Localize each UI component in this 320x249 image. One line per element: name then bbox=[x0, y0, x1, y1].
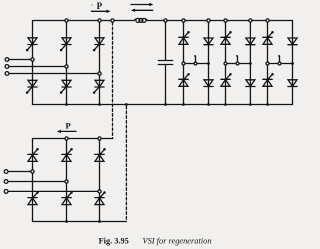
thyristor T2 bbox=[93, 80, 104, 94]
terminal: phase B input bbox=[5, 65, 9, 69]
thyristor Q4 bbox=[179, 73, 190, 86]
capacitor C (DC link) bbox=[158, 21, 172, 105]
thyristor Q3 bbox=[221, 31, 232, 44]
wire: regen phase C lead bbox=[8, 190, 100, 192]
wire: inverter leg1 mid rail bbox=[184, 63, 209, 65]
thyristor T2R bbox=[95, 191, 106, 204]
node: phase B junction bbox=[65, 65, 68, 68]
diode D1 bbox=[204, 38, 213, 45]
wire: regen leg 3 vertical bbox=[99, 139, 101, 222]
junction dot: regen bottom rail leg2 bbox=[65, 220, 68, 223]
node: leg3 top rail diode corner bbox=[0, 0, 1, 1]
caption: figure number bbox=[99, 236, 129, 245]
wire: rectifier leg 3 vertical bbox=[99, 21, 101, 105]
node: leg1 top rail diode bbox=[207, 19, 210, 22]
terminal: regen phase A bbox=[4, 170, 8, 174]
node: regen phase C junction bbox=[98, 190, 101, 193]
wire: regen bridge top rail bbox=[33, 138, 113, 140]
node: phase C junction bbox=[98, 72, 101, 75]
node: leg2 top rail diode bbox=[249, 19, 252, 22]
diode D4 bbox=[204, 80, 213, 87]
thyristor Q5 bbox=[263, 31, 274, 44]
svg-text:Fig. 3.95: Fig. 3.95 bbox=[99, 236, 129, 245]
terminal: regen phase C bbox=[4, 190, 8, 194]
wire: phase A lead bbox=[9, 59, 33, 61]
terminal: output phase U tap bbox=[194, 55, 197, 65]
wire: rectifier leg 2 vertical bbox=[66, 21, 68, 105]
wire: inverter leg2 thyristor column bbox=[225, 21, 227, 105]
caption: figure title bbox=[143, 236, 212, 245]
wire: regen leg 1 vertical bbox=[32, 139, 34, 222]
svg-text:P: P bbox=[66, 120, 71, 130]
thyristor T6R bbox=[62, 191, 73, 204]
wire: regen phase B lead bbox=[8, 181, 67, 183]
junction dot: leg2 diode mid bbox=[249, 62, 252, 65]
junction dot: capacitor bottom rail bbox=[164, 103, 167, 106]
node: top rail leg3 bbox=[98, 19, 101, 22]
wire: inverter leg1 diode column bbox=[208, 21, 210, 105]
node: top rail dashed tap bbox=[111, 19, 114, 22]
diode D2 bbox=[288, 80, 297, 87]
junction dot: bottom rail leg2 bbox=[65, 103, 68, 106]
wire: inverter leg2 mid rail bbox=[226, 63, 251, 65]
wire: inverter leg1 thyristor column bbox=[183, 21, 185, 105]
label P (regeneration power flow) bbox=[66, 120, 71, 130]
node: leg3 thyristor mid bbox=[266, 62, 269, 65]
junction dot: leg1 diode mid bbox=[207, 62, 210, 65]
wire: inverter leg2 diode column bbox=[249, 21, 251, 105]
junction dot: regen bottom rail leg3 bbox=[98, 220, 101, 223]
label P (top power flow) bbox=[91, 1, 102, 11]
terminal: output phase V tap bbox=[236, 55, 239, 65]
diode D6 bbox=[246, 80, 255, 87]
junction dot: leg2 bottom diode bbox=[249, 103, 252, 106]
wire: inverter leg3 mid rail bbox=[268, 63, 293, 65]
terminal: output phase W tap bbox=[278, 55, 281, 65]
wire: rectifier leg 1 vertical bbox=[32, 21, 34, 105]
node: regen phase B junction bbox=[65, 180, 68, 183]
thyristor T4R bbox=[28, 191, 39, 204]
arrow: power flow right (above choke) bbox=[131, 3, 153, 6]
node: regen top rail leg3 bbox=[98, 137, 101, 140]
thyristor T3R bbox=[62, 148, 73, 161]
thyristor Q2 bbox=[263, 73, 274, 86]
wire: inverter leg3 diode column bbox=[292, 21, 294, 105]
wire: regen leg 2 vertical bbox=[66, 139, 68, 222]
node: leg1 thyristor mid bbox=[182, 62, 185, 65]
thyristor T6 bbox=[60, 80, 71, 94]
thyristor T5 bbox=[93, 38, 104, 52]
node: regen phase A junction bbox=[31, 170, 34, 173]
thyristor Q6 bbox=[221, 73, 232, 86]
node: capacitor top rail bbox=[164, 19, 167, 22]
wire: positive DC rail (top) bbox=[33, 20, 293, 22]
node: leg1 top rail thyristor bbox=[182, 19, 185, 22]
junction dot: leg1 bottom thyristor bbox=[182, 103, 185, 106]
wire: negative DC rail (bottom) bbox=[33, 104, 293, 106]
junction dot: bottom rail dashed tap bbox=[125, 103, 128, 106]
wire: regen bridge bottom rail bbox=[33, 221, 127, 223]
junction dot: leg3 bottom thyristor bbox=[266, 103, 269, 106]
node: leg2 top rail thyristor bbox=[224, 19, 227, 22]
arrow: bottom P direction (left) bbox=[57, 130, 76, 133]
arrow: power flow left (above choke) bbox=[131, 9, 153, 12]
svg-text:P: P bbox=[97, 1, 103, 11]
svg-text:VSI for regeneration: VSI for regeneration bbox=[143, 236, 212, 245]
wire: dashed link from top rail to regen bridge bbox=[112, 22, 114, 137]
node: leg3 top rail thyristor bbox=[266, 19, 269, 22]
junction dot: bottom rail leg3 bbox=[98, 103, 101, 106]
node: top rail leg2 bbox=[65, 19, 68, 22]
wire: phase C lead bbox=[9, 73, 100, 75]
diode D5 bbox=[288, 38, 297, 45]
thyristor T4 bbox=[26, 80, 37, 94]
node: phase A junction bbox=[31, 58, 34, 61]
inductor: DC link filter choke bbox=[134, 18, 147, 22]
terminal: phase A input bbox=[5, 58, 9, 62]
wire: regen phase A lead bbox=[8, 171, 33, 173]
terminal: phase C input bbox=[5, 72, 9, 76]
thyristor T5R bbox=[95, 148, 106, 161]
thyristor T1 bbox=[26, 38, 37, 52]
node: leg2 thyristor mid bbox=[224, 62, 227, 65]
thyristor T1R bbox=[28, 148, 39, 161]
junction dot: leg1 bottom diode bbox=[207, 103, 210, 106]
wire: phase B lead bbox=[9, 66, 67, 68]
thyristor T3 bbox=[60, 38, 71, 52]
node: regen top rail leg2 bbox=[65, 137, 68, 140]
wire: inverter leg3 thyristor column bbox=[267, 21, 269, 105]
wire: dashed link from bottom rail to regen bridge bbox=[125, 106, 127, 221]
junction dot: leg3 diode mid bbox=[291, 62, 294, 65]
junction dot: leg2 bottom thyristor bbox=[224, 103, 227, 106]
thyristor Q1 bbox=[179, 31, 190, 44]
arrow: top P direction (right) bbox=[91, 10, 110, 13]
diode D3 bbox=[246, 38, 255, 45]
terminal: regen phase B bbox=[4, 180, 8, 184]
